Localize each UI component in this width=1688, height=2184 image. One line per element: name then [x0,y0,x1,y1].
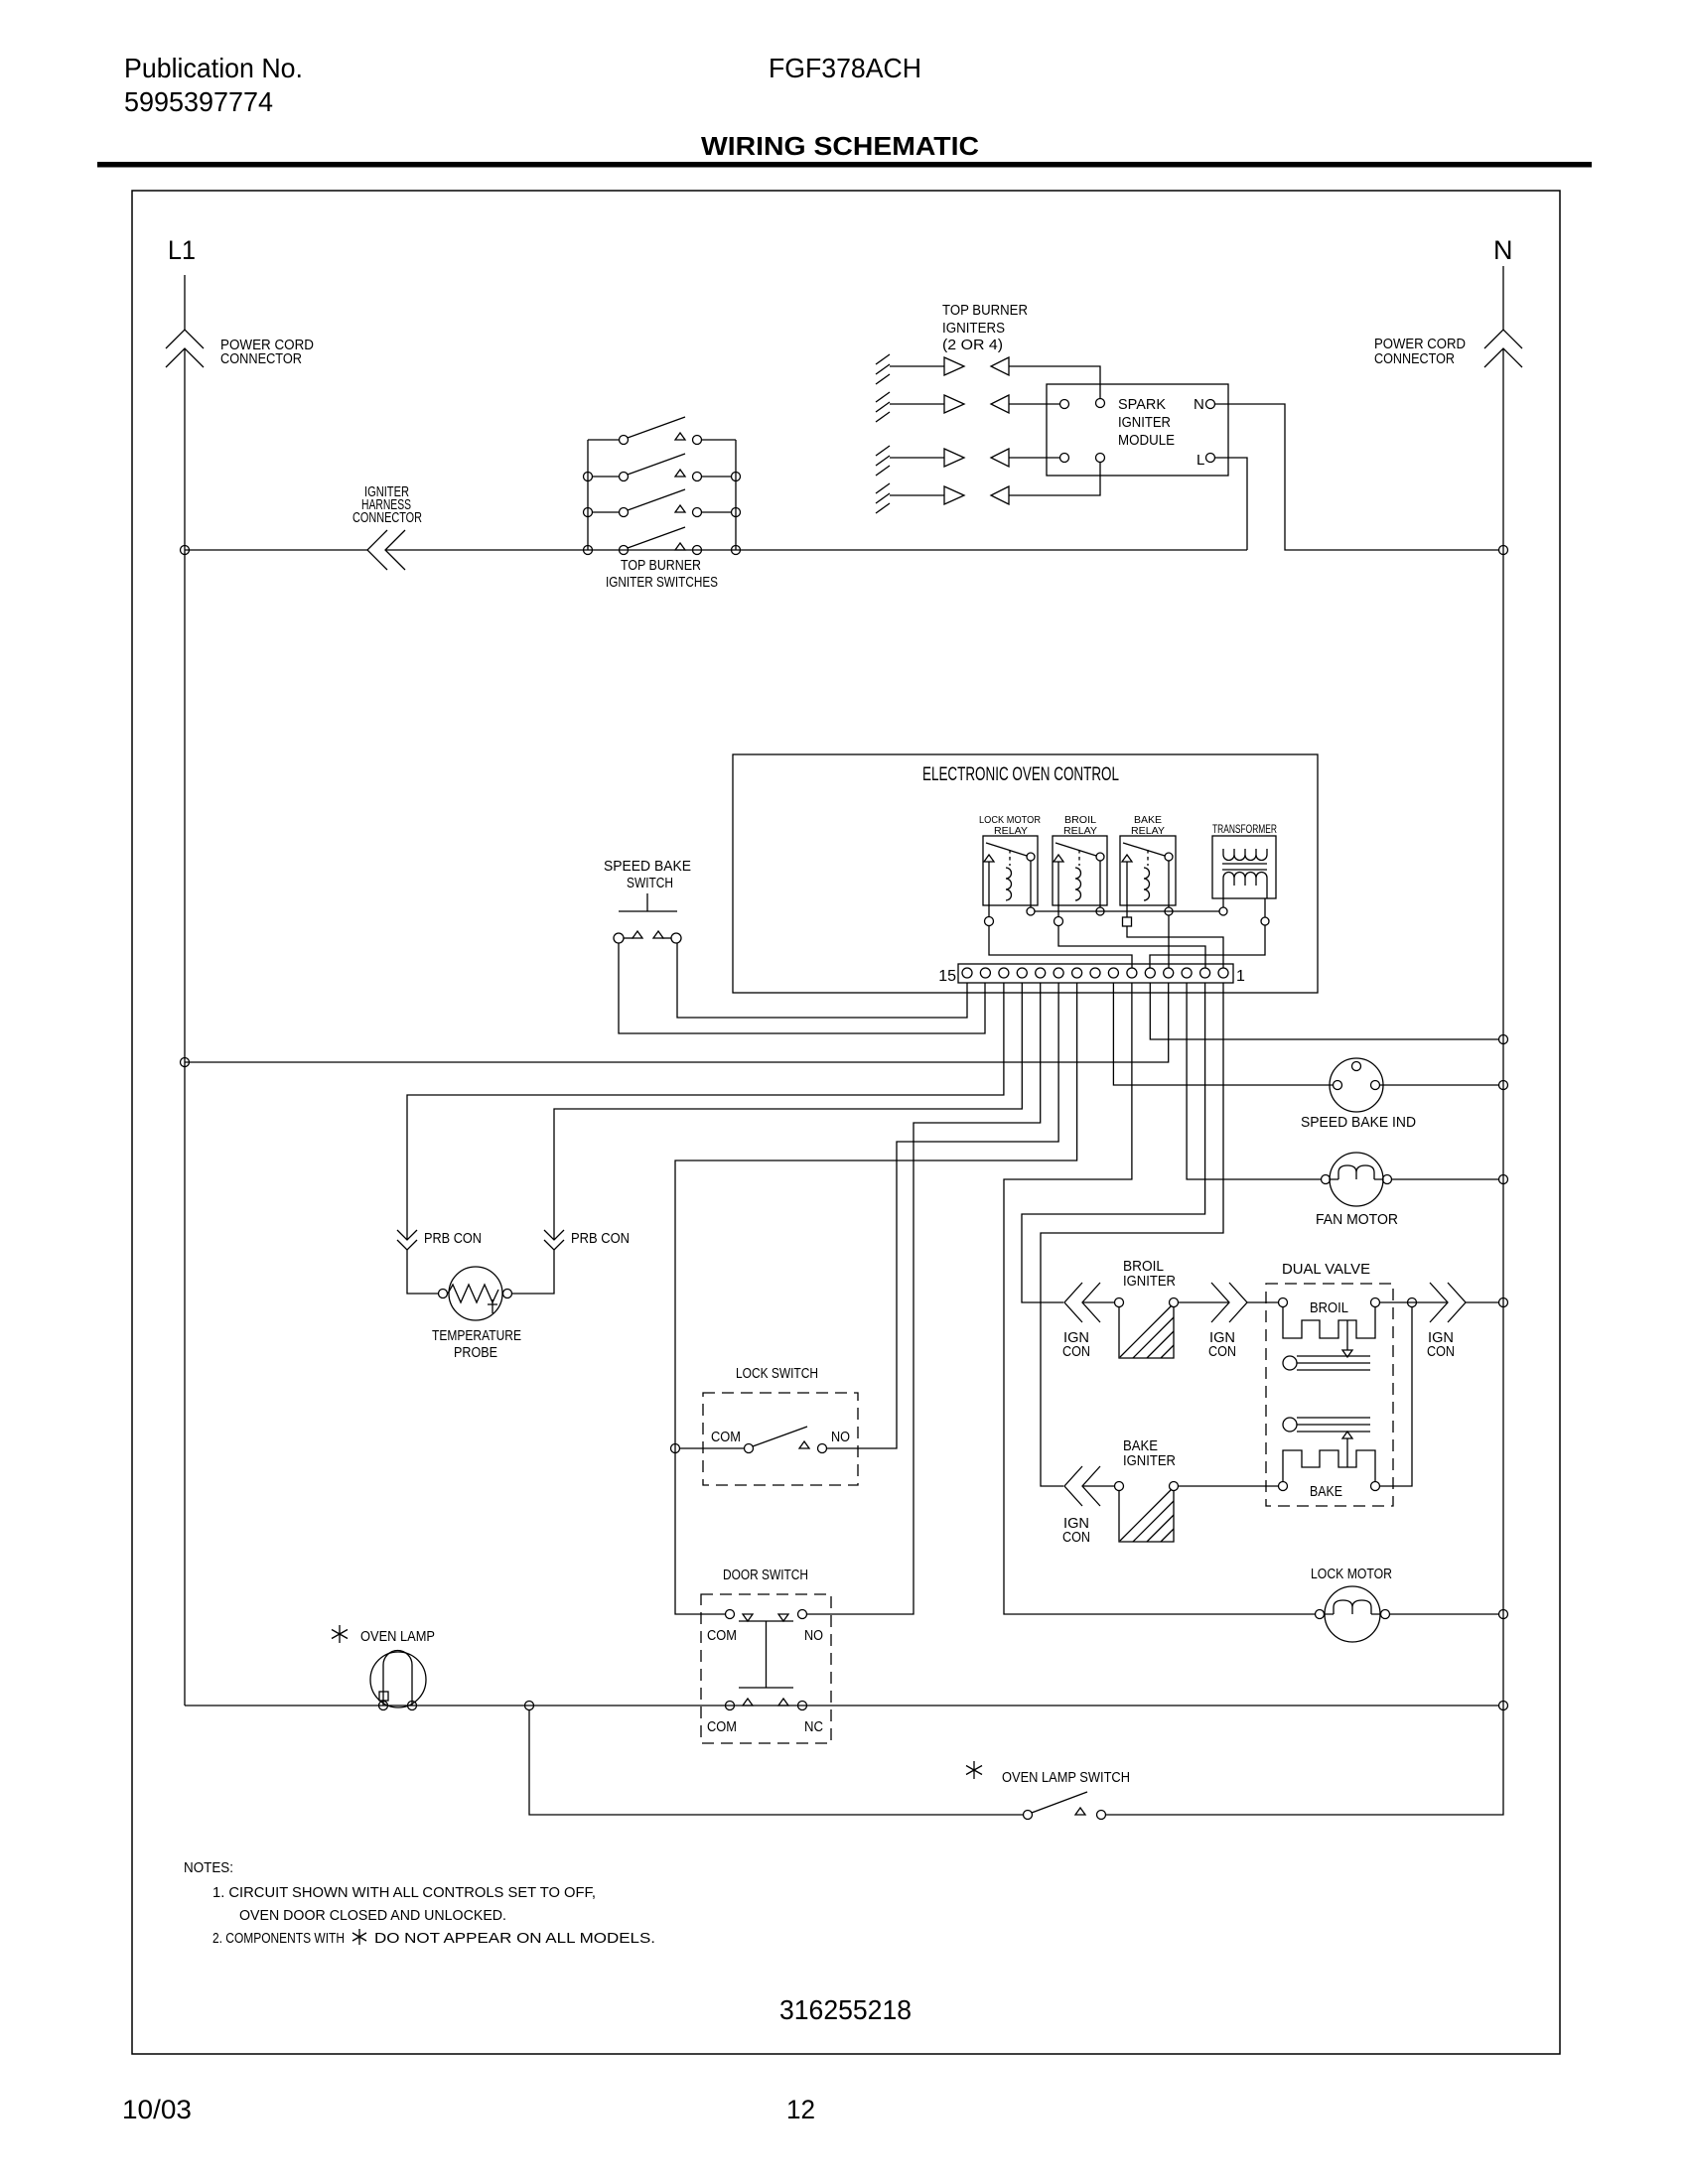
junction bake valve branch [1408,1298,1417,1307]
igniter row 4 wire to module [1009,463,1100,495]
svg-text:CONNECTOR: CONNECTOR [1374,350,1455,367]
wire terminal 2 to broil igniter [1022,983,1205,1302]
svg-text:N: N [1493,235,1513,265]
schematic border frame [132,191,1560,2054]
switch row 3 contact triangle [675,505,685,512]
svg-text:OVEN DOOR CLOSED AND UNLOCKED.: OVEN DOOR CLOSED AND UNLOCKED. [239,1907,506,1924]
svg-text:LOCK SWITCH: LOCK SWITCH [736,1365,818,1382]
switch row 1 wires [588,439,736,441]
svg-text:NC: NC [804,1718,823,1735]
wire terminal 10 to lock switch NO [827,983,1058,1448]
wire terminal 13 to probe connector [407,983,1004,1240]
svg-text:CONNECTOR: CONNECTOR [220,350,302,367]
terminal 9 [1072,968,1082,978]
wire lock motor to N rail [1390,1613,1498,1615]
wire relay U2 coil to terminal 2 [1058,925,1205,968]
igniter row 3 right triangle [944,449,964,467]
prb con connector left [397,1230,417,1250]
igniter row 3 wire to module [1009,457,1059,459]
svg-text:MODULE: MODULE [1118,432,1175,449]
wire bottom rail [185,1705,1498,1706]
svg-text:10/03: 10/03 [122,2095,192,2124]
svg-text:TEMPERATURE: TEMPERATURE [432,1327,521,1344]
svg-text:TRANSFORMER: TRANSFORMER [1212,824,1277,836]
svg-text:IGNITERS: IGNITERS [942,320,1005,337]
svg-text:RELAY: RELAY [1063,825,1097,837]
switch row 3 blade [628,489,685,510]
wire terminal 3 to fan motor [1187,983,1321,1179]
svg-text:316255218: 316255218 [779,1994,912,2025]
igniter row 2 wire [890,403,944,405]
igniter row 1 left triangle [991,357,1009,375]
svg-text:SPEED BAKE IND: SPEED BAKE IND [1301,1114,1416,1131]
junction row4 right bus [732,546,741,555]
igniter row 1 electrode [876,354,890,384]
svg-text:COM: COM [711,1429,741,1445]
svg-text:IGNITER: IGNITER [1123,1452,1176,1469]
dual valve broil pin right [1371,1298,1380,1307]
switch row 1 contact triangle [675,433,685,440]
svg-text:BROIL: BROIL [1310,1299,1348,1316]
svg-text:TOP BURNER: TOP BURNER [621,557,701,574]
terminal 2 [1200,968,1210,978]
svg-text:NOTES:: NOTES: [184,1859,233,1876]
igniter row 2 right triangle [944,395,964,413]
relay U2 contact pin [1096,907,1104,915]
svg-text:5995397774: 5995397774 [124,86,273,117]
igniter row 2 electrode [876,392,890,422]
svg-text:(2 OR 4): (2 OR 4) [942,337,1003,353]
wire relay U3 coil to terminal 1 [1127,926,1223,968]
spark igniter module box [1047,384,1228,476]
svg-text:L1: L1 [168,235,196,265]
terminal 6 [1127,968,1137,978]
svg-text:RELAY: RELAY [994,825,1028,837]
switch row 4 common [620,546,629,555]
igniter row 2 left triangle [991,395,1009,413]
power cord connector left [166,330,204,367]
igniter row 4 electrode [876,483,890,513]
wire prb con right to probe [512,1250,554,1294]
terminal 11 [1036,968,1046,978]
igniter row 3 left triangle [991,449,1009,467]
wire terminal 1 to bake igniter [1041,983,1223,1486]
svg-text:Publication No.: Publication No. [124,53,303,83]
switch row 3 NO circle [693,508,702,517]
ign con connector bake [1064,1466,1100,1506]
junction L1/rail [181,546,190,555]
svg-text:FAN MOTOR: FAN MOTOR [1316,1211,1398,1228]
terminal 1 [1218,968,1228,978]
svg-text:CON: CON [1427,1343,1455,1360]
prb con connector right [544,1230,564,1250]
svg-text:TOP BURNER: TOP BURNER [942,302,1028,319]
ign con connector broil right [1430,1283,1466,1322]
terminal 8 [1090,968,1100,978]
svg-text:ELECTRONIC OVEN CONTROL: ELECTRONIC OVEN CONTROL [922,764,1119,785]
dual valve broil valve body [1283,1306,1375,1338]
svg-text:12: 12 [786,2095,815,2124]
ign con connector broil left [1064,1283,1100,1322]
dual valve box [1266,1284,1393,1506]
igniter row 2 wire to module [1009,403,1059,405]
wire main rail y554 left segment [185,549,1247,551]
svg-text:IGNITER: IGNITER [1118,414,1171,431]
junction terminal5 N rail [1499,1035,1508,1044]
igniter row 3 wire [890,457,944,459]
wire module L to L1 rail [1215,458,1247,550]
junction fan motor N rail [1499,1175,1508,1184]
wire terminal 7 to speed bake indicator [1113,983,1333,1085]
door switch top COM contact [726,1610,735,1619]
junction bottom rail N rail [1499,1702,1508,1710]
igniter row 1 wire to module [1009,366,1100,398]
terminal 15 [962,968,972,978]
fan motor M1 [1330,1153,1383,1206]
electronic oven control box [733,754,1318,993]
svg-text:15: 15 [938,968,956,985]
relay U1 contact pin [1027,907,1035,915]
igniter row 1 wire [890,365,944,367]
wire L1 rail [184,349,186,1706]
module pin bottom mid [1096,454,1105,463]
transformer right leg/pin [1265,878,1267,917]
junction middle rail L1 [181,1058,190,1067]
svg-text:IGNITER SWITCHES: IGNITER SWITCHES [606,574,718,591]
wire contact bus to terminal 4 [1168,915,1170,968]
junction row2 right bus [732,473,741,481]
relay U3 contact pin [1165,907,1173,915]
wire speed bake indicator to N rail [1380,1084,1498,1086]
door switch bottom COM contact [726,1702,735,1710]
wire middle rail terminal 4 to L1 [185,983,1169,1062]
note asterisk [352,1929,366,1945]
door switch bottom NC contact [798,1702,807,1710]
wire ign con to bake igniter [1082,1485,1114,1487]
oven lamp asterisk [332,1625,348,1643]
door switch bottom triangles [743,1699,753,1706]
terminal 4 [1164,968,1174,978]
wire terminal 9 to lock/door switch COM [675,983,1077,1614]
junction row3 left bus [584,508,593,517]
svg-text:2. COMPONENTS WITH: 2. COMPONENTS WITH [212,1930,345,1947]
bake igniter E2 [1115,1482,1124,1491]
terminal 10 [1054,968,1063,978]
broil igniter E1 [1115,1298,1124,1307]
igniter row 4 right triangle [944,486,964,504]
wire L1 rail top [184,275,186,330]
svg-text:NO: NO [804,1627,823,1644]
switch row 3 common [620,508,629,517]
svg-text:SWITCH: SWITCH [627,875,673,891]
svg-text:OVEN LAMP: OVEN LAMP [360,1628,435,1645]
wire relay U1 coil to terminal 6 [989,925,1132,968]
svg-text:PRB CON: PRB CON [571,1230,630,1247]
terminal 7 [1108,968,1118,978]
oven lamp switch asterisk [966,1761,982,1779]
wire terminal 5 to N rail [1150,983,1498,1039]
svg-text:WIRING SCHEMATIC: WIRING SCHEMATIC [701,131,979,161]
wire module N to N rail [1215,404,1498,550]
wire terminal 6 to lock motor [1004,983,1315,1614]
svg-text:COM: COM [707,1627,737,1644]
relay U3 coil pin square [1123,917,1132,926]
igniter row 1 right triangle [944,357,964,375]
switch row 2 wires [592,476,731,478]
switch row 2 contact triangle [675,470,685,477]
wire relay contact bus [1035,910,1219,912]
wire terminal 11 to door switch NO [807,983,1041,1614]
oven lamp LP1 [370,1652,426,1707]
ign con connector broil mid [1211,1283,1247,1322]
dual valve bake valve body [1283,1450,1375,1482]
terminal 3 [1182,968,1192,978]
wire ign con to dual valve broil [1247,1301,1278,1303]
svg-text:L: L [1196,452,1204,469]
svg-text:CON: CON [1062,1529,1090,1546]
svg-text:CON: CON [1208,1343,1236,1360]
junction oven lamp switch tap [525,1702,534,1710]
terminal 14 [980,968,990,978]
top burner igniter switches: right bus [735,440,737,550]
wire N rail top [1502,266,1504,330]
terminal 13 [999,968,1009,978]
junction broil N rail [1499,1298,1508,1307]
igniter row 4 left triangle [991,486,1009,504]
junction row4 left bus [584,546,593,555]
wire N rail [1106,349,1503,1815]
power cord connector right [1484,330,1522,367]
junction speed bake ind N rail [1499,1081,1508,1090]
terminal strip [958,964,1233,983]
svg-text:RELAY: RELAY [1131,825,1165,837]
wire broil igniter to ign con [1179,1301,1229,1303]
switch row 4 contact triangle [675,543,685,550]
svg-text:CON: CON [1062,1343,1090,1360]
oven lamp switch S3 [1024,1811,1033,1820]
dual valve bake pin right [1371,1482,1380,1491]
dual valve broil pin left [1279,1298,1288,1307]
svg-text:LOCK MOTOR: LOCK MOTOR [1311,1566,1392,1582]
dual valve bake solenoid [1283,1418,1297,1432]
transformer left leg/pin [1222,878,1224,907]
junction lock switch COM [671,1444,680,1453]
svg-text:PROBE: PROBE [454,1344,497,1361]
igniter row 3 electrode [876,446,890,476]
wire ign con to N rail [1466,1301,1498,1303]
terminal 12 [1017,968,1027,978]
relay U1 coil pin [985,917,994,926]
wire prb con left to probe [407,1250,438,1294]
door switch top triangles [743,1614,753,1621]
switch row 3 wires [592,511,731,513]
switch row 2 common [620,473,629,481]
wire bake igniter to dual valve [1179,1485,1278,1487]
svg-text:BAKE: BAKE [1310,1483,1342,1500]
svg-text:N: N [1194,396,1204,413]
wire transformer to terminal 5 [1150,925,1265,968]
svg-text:IGNITER: IGNITER [1123,1273,1176,1290]
relay U2 coil pin [1055,917,1063,926]
switch row 2 NO circle [693,473,702,481]
junction N rail y554 [1499,546,1508,555]
wire to oven lamp switch [529,1710,1023,1815]
svg-text:SPEED BAKE: SPEED BAKE [604,858,691,875]
top burner igniter switches: left bus [587,440,589,550]
door switch actuator [739,1621,793,1688]
junction row2 left bus [584,473,593,481]
wire ign con to broil igniter [1082,1301,1114,1303]
igniter row 4 wire [890,494,944,496]
wire fan motor to N rail [1392,1178,1498,1180]
svg-text:DO NOT APPEAR ON ALL MODELS.: DO NOT APPEAR ON ALL MODELS. [374,1930,655,1947]
svg-text:CONNECTOR: CONNECTOR [352,509,422,526]
switch row 1 common [620,436,629,445]
svg-text:DOOR SWITCH: DOOR SWITCH [723,1567,808,1583]
igniter harness connector [367,530,405,570]
svg-text:NO: NO [831,1429,850,1445]
speed bake indicator [1330,1058,1383,1112]
wire bake valve to broil row [1380,1306,1412,1486]
terminal 5 [1145,968,1155,978]
title rule [97,162,1592,168]
module pin left lower [1060,454,1069,463]
svg-text:COM: COM [707,1718,737,1735]
svg-text:1. CIRCUIT SHOWN WITH ALL CON: 1. CIRCUIT SHOWN WITH ALL CONTROLS SET T… [212,1884,596,1901]
wire terminal 14 to speed bake switch [619,943,985,1033]
dual valve broil solenoid [1283,1356,1297,1370]
wire terminal 12 to probe connector [554,983,1022,1240]
module pin top mid [1096,399,1105,408]
svg-text:OVEN LAMP SWITCH: OVEN LAMP SWITCH [1002,1769,1130,1786]
dual valve bake pin left [1279,1482,1288,1491]
svg-text:DUAL VALVE: DUAL VALVE [1282,1261,1370,1278]
door switch top NO contact [798,1610,807,1619]
junction row3 right bus [732,508,741,517]
junction lock motor N rail [1499,1610,1508,1619]
svg-text:FGF378ACH: FGF378ACH [769,53,921,83]
svg-text:PRB CON: PRB CON [424,1230,482,1247]
wire broil valve to ign con [1380,1301,1448,1303]
temperature probe RT1 [449,1267,502,1320]
svg-text:SPARK: SPARK [1118,396,1166,413]
switch row 2 blade [628,454,685,475]
switch row 1 NO circle [693,436,702,445]
switch row 4 blade [628,527,685,548]
switch row 1 blade [628,417,685,438]
switch row 4 NO circle [693,546,702,555]
wire terminal 15 to speed bake switch [677,943,967,1018]
module pin left upper [1060,400,1069,409]
svg-text:1: 1 [1236,968,1245,985]
